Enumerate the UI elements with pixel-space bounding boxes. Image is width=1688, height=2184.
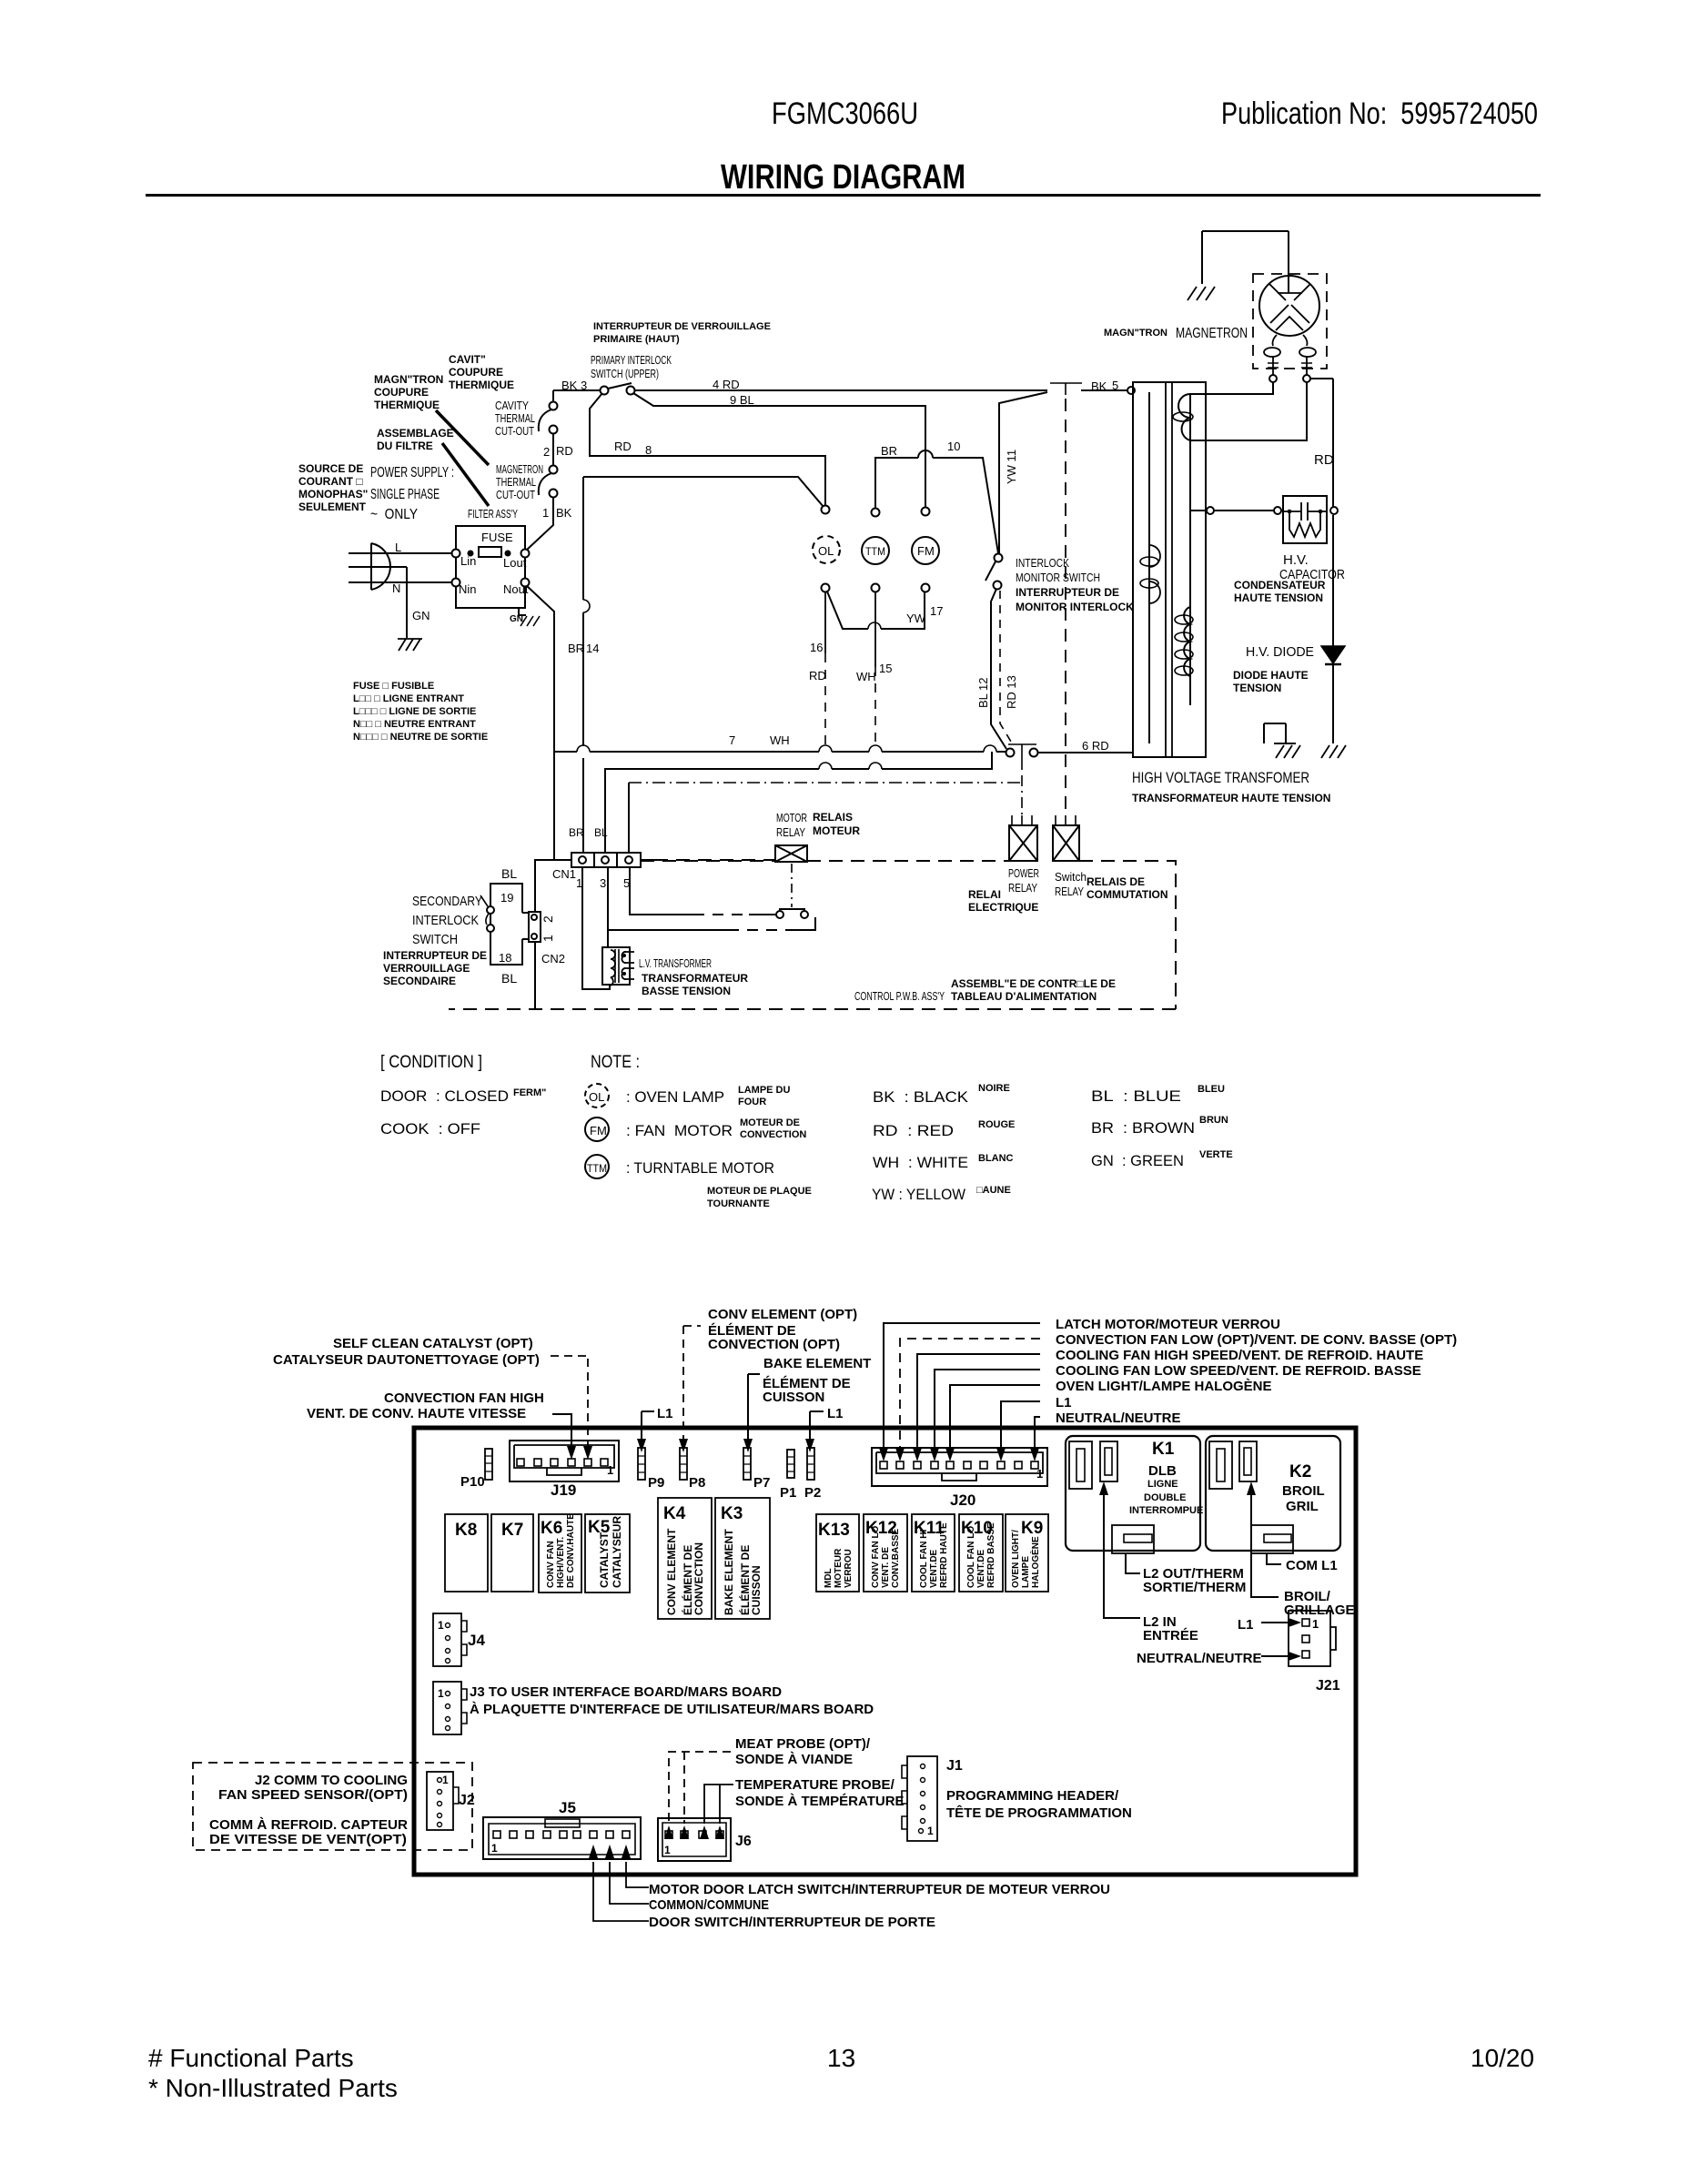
svg-text:L□□ □ LIGNE ENTRANT: L□□ □ LIGNE ENTRANT: [353, 693, 464, 704]
svg-text:THERMIQUE: THERMIQUE: [374, 399, 440, 411]
svg-text:YW 11: YW 11: [1005, 450, 1018, 484]
wire 1 BK: [526, 497, 553, 551]
svg-text:1: 1: [542, 506, 549, 520]
svg-text:CONV.BASSE: CONV.BASSE: [891, 1528, 901, 1588]
connector J6: [658, 1818, 731, 1861]
svg-text:J19: J19: [551, 1481, 576, 1499]
leader cooling fan low: [935, 1370, 1040, 1451]
wire CN1 pin3 tap to contact right: [608, 917, 815, 930]
svg-text:MOTOR: MOTOR: [776, 811, 807, 824]
svg-text:CN2: CN2: [541, 952, 565, 966]
svg-text:VERROUILLAGE: VERROUILLAGE: [383, 962, 470, 975]
svg-text:POWER SUPPLY :: POWER SUPPLY :: [370, 465, 454, 480]
leader L1 J21: [1261, 1622, 1292, 1623]
arrow P2: [805, 1439, 814, 1452]
magnetron filament leads: [1273, 335, 1308, 346]
magnetron thermal cut-out switch S3: [539, 473, 551, 495]
svg-text:16: 16: [810, 641, 823, 654]
wire BR 14 vertical: [582, 477, 584, 853]
svg-text:13: 13: [827, 2044, 855, 2072]
dotted link Lout-Nout: [456, 558, 525, 578]
magnetron top wire: [1202, 231, 1289, 293]
wire dashed drop to switch relay: [1065, 399, 1066, 815]
svg-text:10: 10: [947, 440, 960, 453]
svg-text:L1: L1: [1056, 1395, 1072, 1410]
svg-text:CATALYSEUR DAUTONETTOYAGE (OPT: CATALYSEUR DAUTONETTOYAGE (OPT): [273, 1352, 540, 1368]
svg-text:J1: J1: [946, 1758, 963, 1774]
J5 door switch leaders: [593, 1862, 649, 1921]
cavity thermal cut-out switch S2: [552, 390, 554, 402]
svg-text:FAN SPEED SENSOR/(OPT): FAN SPEED SENSOR/(OPT): [218, 1787, 408, 1803]
relay K3: [715, 1498, 770, 1619]
svg-text:MDL: MDL: [824, 1568, 834, 1588]
wire CN1 pin5 dash-dot to relay: [628, 783, 630, 853]
svg-text:COOLING FAN HIGH SPEED/VENT. D: COOLING FAN HIGH SPEED/VENT. DE REFROID.…: [1056, 1348, 1423, 1363]
svg-text:VENT. DE CONV. HAUTE VITESSE: VENT. DE CONV. HAUTE VITESSE: [307, 1406, 526, 1421]
svg-text:CUT-OUT: CUT-OUT: [495, 424, 534, 438]
svg-text:CONVECTION: CONVECTION: [692, 1542, 705, 1615]
wire OL top feed: [583, 477, 824, 507]
svg-text:4 RD: 4 RD: [713, 378, 740, 391]
svg-text:VENT.DE: VENT.DE: [929, 1549, 939, 1588]
leader oven light: [950, 1385, 1040, 1451]
svg-text:K6: K6: [541, 1519, 562, 1538]
svg-text:MOTEUR: MOTEUR: [813, 824, 860, 837]
wire WH 15 drop: [874, 591, 876, 667]
svg-text:NOIRE: NOIRE: [978, 1083, 1010, 1094]
filter assy box: [456, 526, 525, 608]
arrow NEUTRAL J21: [1289, 1652, 1301, 1661]
connector CN2: [534, 942, 536, 1009]
legend TTM symbol: [585, 1155, 609, 1178]
svg-text:GRILLAGE: GRILLAGE: [1284, 1603, 1355, 1618]
svg-text:CAVITY: CAVITY: [495, 399, 529, 412]
svg-text:BL : BLUE: BL : BLUE: [1091, 1087, 1181, 1105]
svg-text:L□□□ □ LIGNE DE SORTIE: L□□□ □ LIGNE DE SORTIE: [353, 706, 476, 717]
svg-text:: OVEN LAMP: : OVEN LAMP: [626, 1088, 724, 1106]
connector J21: [1289, 1611, 1330, 1666]
meat probe dashed leaders: [669, 1752, 731, 1824]
svg-text:1: 1: [491, 1842, 498, 1855]
svg-text:INTERRUPTEUR DE VERROUILLAGE: INTERRUPTEUR DE VERROUILLAGE: [593, 321, 771, 332]
svg-text:GN: GN: [412, 609, 430, 622]
svg-text:RELAY: RELAY: [1008, 881, 1037, 895]
svg-text:MAGNETRON: MAGNETRON: [496, 462, 543, 476]
high voltage transformer T1: [1133, 382, 1206, 757]
svg-text:RD 13: RD 13: [1005, 675, 1018, 709]
svg-text:DOOR : CLOSED: DOOR : CLOSED: [380, 1087, 509, 1105]
svg-text:COOK : OFF: COOK : OFF: [380, 1120, 480, 1137]
bump BL wire over 16RD: [819, 763, 832, 769]
svg-text:19: 19: [500, 891, 513, 905]
svg-text:REFRD BASSE: REFRD BASSE: [986, 1522, 996, 1588]
svg-text:COOL FAN LO: COOL FAN LO: [966, 1526, 976, 1588]
svg-text:Lin: Lin: [460, 554, 476, 568]
svg-text:P10: P10: [460, 1474, 485, 1490]
svg-text:CUISSON: CUISSON: [750, 1565, 763, 1615]
svg-text:CONVECTION FAN HIGH: CONVECTION FAN HIGH: [384, 1390, 544, 1406]
svg-text:MOTOR DOOR LATCH SWITCH/INTERR: MOTOR DOOR LATCH SWITCH/INTERRUPTEUR DE …: [649, 1882, 1110, 1897]
svg-text:1: 1: [541, 935, 555, 942]
svg-text:SWITCH: SWITCH: [412, 932, 458, 947]
node Lout: [521, 550, 530, 558]
legend OL symbol: [585, 1084, 609, 1107]
svg-text:BR: BR: [881, 444, 897, 458]
svg-text:K8: K8: [455, 1521, 477, 1540]
svg-text:RELAY: RELAY: [1055, 885, 1084, 898]
svg-text:OVEN LIGHT/LAMPE HALOGÈNE: OVEN LIGHT/LAMPE HALOGÈNE: [1056, 1379, 1272, 1394]
node primary interlock right: [627, 387, 635, 395]
wire filter GN tail: [519, 608, 526, 615]
T1 filament winding: [1149, 545, 1160, 603]
ground RD rail: [1321, 745, 1346, 758]
leader neutral J20: [1035, 1417, 1040, 1451]
svg-text:BRUN: BRUN: [1199, 1115, 1228, 1126]
wire 2 RD: [552, 433, 554, 466]
svg-text:VERROU: VERROU: [844, 1549, 854, 1588]
svg-text:PRIMAIRE (HAUT): PRIMAIRE (HAUT): [593, 334, 680, 345]
svg-text:TRANSFORMATEUR: TRANSFORMATEUR: [642, 972, 748, 985]
connector J2: [427, 1772, 453, 1830]
svg-text:PROGRAMMING HEADER/: PROGRAMMING HEADER/: [946, 1788, 1119, 1804]
svg-text:1: 1: [576, 876, 582, 890]
arrow J19 pin5: [583, 1446, 592, 1460]
svg-text:SECONDAIRE: SECONDAIRE: [383, 975, 456, 987]
svg-text:5: 5: [623, 876, 630, 890]
wire BK 3 top bus: [553, 389, 601, 391]
J2 comm dashed box: [193, 1763, 472, 1850]
LV transformer T2: [602, 947, 630, 985]
svg-text:RD: RD: [809, 669, 826, 682]
svg-text:BK: BK: [561, 379, 578, 392]
svg-text:BL 12: BL 12: [976, 678, 990, 709]
svg-text:MOTEUR DE: MOTEUR DE: [740, 1117, 800, 1128]
svg-text:□AUNE: □AUNE: [976, 1185, 1011, 1196]
svg-text:H.V.: H.V.: [1283, 552, 1309, 568]
relay K2 outline: [1206, 1436, 1340, 1551]
vertical neutral feed to CN1 row: [553, 752, 555, 860]
arrows J20 pins: [879, 1448, 888, 1461]
wire 7 WH neutral bus: [526, 585, 1006, 752]
svg-text:Switch: Switch: [1055, 870, 1087, 884]
svg-text:RELAY: RELAY: [776, 825, 805, 839]
svg-text:SOURCE DE: SOURCE DE: [298, 462, 363, 475]
svg-text:RELAIS DE: RELAIS DE: [1087, 875, 1145, 888]
svg-text:9 BL: 9 BL: [730, 393, 754, 407]
svg-text:J2: J2: [459, 1793, 475, 1808]
K1 output lug: [1112, 1525, 1154, 1553]
bump 7WH over 16RD: [819, 745, 832, 752]
svg-text:MONITOR INTERLOCK: MONITOR INTERLOCK: [1016, 601, 1134, 613]
svg-text:1: 1: [438, 1687, 444, 1700]
svg-text:BK: BK: [1091, 379, 1107, 393]
connector P10: [485, 1449, 492, 1480]
wire CN1 pin3 BL riser: [605, 752, 992, 853]
svg-text:Nout: Nout: [503, 582, 529, 596]
svg-text:YW: YW: [906, 612, 926, 625]
relay K5: [585, 1514, 630, 1592]
svg-text:COM L1: COM L1: [1286, 1558, 1338, 1573]
svg-text:HAUTE TENSION: HAUTE TENSION: [1234, 591, 1323, 604]
primary interlock switch S1 blade: [608, 383, 632, 389]
svg-text:INTERLOCK: INTERLOCK: [412, 913, 479, 928]
bump YW17 over WH15: [868, 622, 881, 629]
bump BR14 over hidden horizontal: [583, 600, 590, 612]
connector P9: [638, 1448, 645, 1480]
svg-text:BL: BL: [501, 866, 517, 881]
svg-text:1: 1: [1036, 1467, 1043, 1481]
relay K13: [816, 1514, 859, 1592]
wire magnetron filament left: [1190, 382, 1273, 394]
legend FM symbol: [585, 1117, 609, 1141]
arrow P9: [637, 1439, 646, 1452]
svg-text:OL: OL: [818, 544, 834, 558]
wire YW 11: [999, 392, 1047, 555]
leader convection fan high: [552, 1414, 571, 1449]
leader L2 OUT: [1126, 1553, 1140, 1573]
relay K8: [445, 1514, 488, 1592]
svg-text:LATCH MOTOR/MOTEUR VERROU: LATCH MOTOR/MOTEUR VERROU: [1056, 1317, 1280, 1332]
svg-text:SONDE À TEMPÉRATURE: SONDE À TEMPÉRATURE: [735, 1794, 905, 1809]
svg-text:FILTER ASS'Y: FILTER ASS'Y: [468, 507, 518, 521]
svg-text:RD: RD: [614, 440, 632, 453]
turntable motor TTM: [862, 537, 889, 564]
node 6RD right: [1030, 749, 1038, 757]
svg-text:COOLING FAN LOW SPEED/VENT. DE: COOLING FAN LOW SPEED/VENT. DE REFROID. …: [1056, 1363, 1421, 1379]
svg-text:FM: FM: [917, 544, 935, 558]
svg-text:ASSEMBL"E DE CONTR□LE DE: ASSEMBL"E DE CONTR□LE DE: [951, 977, 1116, 990]
connector J20: [872, 1448, 1047, 1486]
svg-text:À PLAQUETTE D'INTERFACE DE UTI: À PLAQUETTE D'INTERFACE DE UTILISATEUR/M…: [470, 1702, 874, 1717]
leader magnetron thermique: [436, 410, 489, 465]
svg-text:COOL FAN HI: COOL FAN HI: [919, 1530, 929, 1588]
svg-text:CONV FAN LO: CONV FAN LO: [871, 1525, 881, 1588]
arrow P8: [679, 1439, 688, 1452]
svg-text:DE VITESSE DE VENT(OPT): DE VITESSE DE VENT(OPT): [209, 1832, 407, 1847]
svg-text:COUPURE: COUPURE: [449, 366, 503, 379]
bump 7WH over WH15: [869, 745, 882, 752]
svg-text:J4: J4: [468, 1632, 485, 1649]
svg-text:L.V. TRANSFORMER: L.V. TRANSFORMER: [639, 956, 712, 970]
svg-text:K1: K1: [1152, 1440, 1175, 1459]
svg-text:DE CONV.HAUTE: DE CONV.HAUTE: [566, 1513, 576, 1588]
bump BR wire over 9BL: [918, 450, 933, 458]
connector J1: [907, 1756, 937, 1841]
svg-text:BLANC: BLANC: [978, 1153, 1014, 1164]
svg-text:J20: J20: [950, 1491, 975, 1509]
ground filter GN: [521, 616, 540, 626]
relay K4: [658, 1498, 712, 1619]
bump 7WH over BL12: [984, 745, 996, 752]
svg-text:1: 1: [1312, 1617, 1319, 1631]
wire magnetron filament right: [1190, 382, 1307, 440]
svg-text:VENT. DE: VENT. DE: [881, 1547, 891, 1588]
svg-text:INTERRUPTEUR DE: INTERRUPTEUR DE: [1016, 586, 1119, 599]
wire BL 12: [991, 589, 1006, 749]
svg-text:1: 1: [442, 1774, 449, 1786]
svg-text:BL: BL: [594, 826, 608, 839]
leader self clean catalyst dashed: [551, 1356, 588, 1449]
svg-text:NEUTRAL/NEUTRE: NEUTRAL/NEUTRE: [1137, 1651, 1262, 1666]
svg-text:GRIL: GRIL: [1286, 1499, 1319, 1514]
svg-text:6 RD: 6 RD: [1082, 739, 1109, 753]
svg-text:CONV ELEMENT (OPT): CONV ELEMENT (OPT): [708, 1307, 857, 1322]
svg-text:1: 1: [664, 1844, 671, 1856]
svg-text:DOOR SWITCH/INTERRUPTEUR DE PO: DOOR SWITCH/INTERRUPTEUR DE PORTE: [649, 1915, 935, 1930]
svg-text:SEULEMENT: SEULEMENT: [298, 500, 367, 513]
wire capacitor feed: [1190, 510, 1283, 511]
wire 9 BL: [633, 393, 925, 508]
svg-text:CONDENSATEUR: CONDENSATEUR: [1234, 579, 1326, 591]
svg-text:Nin: Nin: [459, 582, 477, 596]
leader latch motor: [884, 1323, 1040, 1451]
motor relay coil: [775, 845, 807, 862]
K2 output lug: [1251, 1525, 1293, 1553]
leader L1 to P9: [642, 1411, 654, 1441]
svg-text:3: 3: [581, 379, 587, 392]
svg-text:RELAI: RELAI: [968, 888, 1001, 901]
svg-text:WH: WH: [770, 733, 790, 747]
svg-text:: FAN MOTOR: : FAN MOTOR: [626, 1122, 733, 1139]
svg-text:BLEU: BLEU: [1198, 1084, 1225, 1095]
ground magnetron: [1188, 287, 1215, 300]
svg-text:BK: BK: [556, 506, 572, 520]
svg-text:CONVECTION (OPT): CONVECTION (OPT): [708, 1337, 840, 1352]
svg-text:WH : WHITE: WH : WHITE: [873, 1154, 968, 1171]
relay K11: [912, 1514, 955, 1592]
relay K1 outline: [1066, 1436, 1200, 1551]
wire RD 8 from primary interlock: [590, 393, 825, 506]
svg-text:BR: BR: [568, 642, 584, 655]
svg-text:P9: P9: [648, 1475, 664, 1491]
T1 secondary tap: [1264, 723, 1296, 743]
relay K9: [1006, 1514, 1048, 1592]
svg-text:MAGNETRON: MAGNETRON: [1176, 326, 1248, 341]
svg-text:LAMPE: LAMPE: [1021, 1556, 1031, 1588]
svg-text:COMMUTATION: COMMUTATION: [1087, 888, 1168, 901]
svg-text:1: 1: [607, 1463, 613, 1477]
leader COM L1: [1267, 1553, 1281, 1564]
svg-text:FGMC3066U: FGMC3066U: [772, 96, 918, 131]
leader bake element: [748, 1374, 760, 1441]
svg-text:3: 3: [600, 876, 606, 890]
wire BR 10 to turntable motor: [875, 458, 998, 553]
arrows J5 pins: [589, 1845, 598, 1858]
heading rule: [146, 194, 1541, 197]
svg-text:HIGH VOLTAGE TRANSFOMER: HIGH VOLTAGE TRANSFOMER: [1132, 769, 1309, 786]
T1 primary coil: [1178, 394, 1190, 440]
node at transformer primary: [1127, 387, 1135, 394]
node 7WH/6RD left: [1006, 749, 1015, 757]
secondary interlock switch box: [490, 884, 522, 965]
oven lamp OL: [813, 536, 840, 563]
wire CN1 to motor relay dashed: [641, 859, 775, 861]
svg-text:TEMPERATURE PROBE/: TEMPERATURE PROBE/: [735, 1777, 895, 1793]
magnetron dashed enclosure: [1253, 274, 1327, 369]
svg-text:WIRING DIAGRAM: WIRING DIAGRAM: [721, 158, 965, 197]
svg-text:MONITOR SWITCH: MONITOR SWITCH: [1016, 571, 1100, 584]
svg-text:P2: P2: [804, 1485, 821, 1501]
svg-text:K4: K4: [663, 1504, 686, 1523]
svg-text:Publication No: 5995724050: Publication No: 5995724050: [1221, 96, 1538, 131]
svg-text:CN1: CN1: [552, 867, 576, 881]
svg-text:TOURNANTE: TOURNANTE: [707, 1198, 770, 1209]
svg-text:ROUGE: ROUGE: [978, 1119, 1015, 1130]
switch actuator tick BK5 junction: [1050, 383, 1082, 395]
svg-text:TENSION: TENSION: [1233, 682, 1281, 694]
svg-text:SELF CLEAN CATALYST (OPT): SELF CLEAN CATALYST (OPT): [333, 1336, 533, 1351]
wire BROIL to K2: [1251, 1485, 1279, 1597]
svg-text:PRIMARY INTERLOCK: PRIMARY INTERLOCK: [591, 353, 672, 367]
svg-text:THERMAL: THERMAL: [495, 411, 535, 425]
svg-text:K3: K3: [721, 1504, 743, 1523]
svg-text:FM: FM: [590, 1124, 607, 1137]
svg-text:BAKE ELEMENT: BAKE ELEMENT: [763, 1356, 871, 1371]
control board outline: [414, 1428, 1356, 1875]
svg-text:FUSE □ FUSIBLE: FUSE □ FUSIBLE: [353, 681, 434, 692]
wire CN1 pin1 drop: [582, 867, 610, 989]
svg-text:FUSE: FUSE: [481, 531, 513, 544]
arrow J19 pin4: [567, 1446, 576, 1460]
svg-text:P8: P8: [689, 1475, 705, 1491]
svg-text:SWITCH (UPPER): SWITCH (UPPER): [591, 367, 659, 380]
svg-text:RD: RD: [1314, 452, 1334, 468]
connector J5: [483, 1817, 641, 1859]
svg-text:NEUTRAL/NEUTRE: NEUTRAL/NEUTRE: [1056, 1410, 1181, 1426]
svg-text:COURANT □: COURANT □: [298, 475, 363, 488]
svg-text:INTERROMPUE: INTERROMPUE: [1129, 1505, 1203, 1516]
svg-text:DIODE HAUTE: DIODE HAUTE: [1233, 669, 1309, 682]
svg-text:14: 14: [586, 642, 599, 655]
switch relay coil: [1053, 825, 1079, 861]
svg-text:FOUR: FOUR: [738, 1097, 766, 1107]
node primary interlock left: [601, 387, 609, 395]
svg-text:CONTROL P.W.B. ASS'Y: CONTROL P.W.B. ASS'Y: [854, 989, 945, 1003]
arrow K2 coil: [1247, 1481, 1256, 1495]
svg-text:CONVECTION FAN LOW (OPT)/VENT.: CONVECTION FAN LOW (OPT)/VENT. DE CONV. …: [1056, 1332, 1457, 1348]
svg-text:CATALYSEUR: CATALYSEUR: [611, 1516, 623, 1588]
bump BL wire over WH15: [869, 763, 882, 769]
svg-text:WH: WH: [856, 670, 876, 683]
control PWB assy dashed box: [449, 861, 1176, 1009]
oven lamp OL bottom diagonal to YW 17: [827, 591, 925, 629]
svg-text:Lout: Lout: [503, 556, 527, 570]
svg-text:POWER: POWER: [1008, 866, 1039, 880]
svg-text:15: 15: [879, 662, 892, 675]
svg-text:DU FILTRE: DU FILTRE: [377, 440, 433, 452]
svg-text:TABLEAU D'ALIMENTATION: TABLEAU D'ALIMENTATION: [951, 990, 1097, 1003]
connector J3: [433, 1682, 461, 1734]
wire CN1 pin3 drop: [607, 867, 609, 947]
arrows J6 pins: [664, 1825, 673, 1839]
svg-text:K13: K13: [818, 1521, 850, 1540]
svg-text:L: L: [395, 541, 401, 554]
svg-text:8: 8: [645, 443, 652, 457]
T1 secondary HV winding: [1184, 607, 1190, 676]
svg-text:17: 17: [930, 604, 943, 618]
leader NEUTRAL J21: [1261, 1655, 1292, 1657]
svg-text:VERTE: VERTE: [1199, 1149, 1233, 1160]
svg-text:SONDE À VIANDE: SONDE À VIANDE: [735, 1752, 853, 1767]
svg-text:THERMAL: THERMAL: [496, 475, 536, 489]
leader L1 J20: [1001, 1401, 1040, 1451]
ground plug GN: [398, 639, 422, 651]
svg-text:ASSEMBLAGE: ASSEMBLAGE: [377, 427, 454, 440]
HV diode D1: [1321, 646, 1345, 663]
svg-text:SINGLE PHASE: SINGLE PHASE: [370, 487, 440, 502]
svg-text:J6: J6: [735, 1834, 752, 1849]
svg-text:COMM À REFROID. CAPTEUR: COMM À REFROID. CAPTEUR: [209, 1817, 408, 1833]
